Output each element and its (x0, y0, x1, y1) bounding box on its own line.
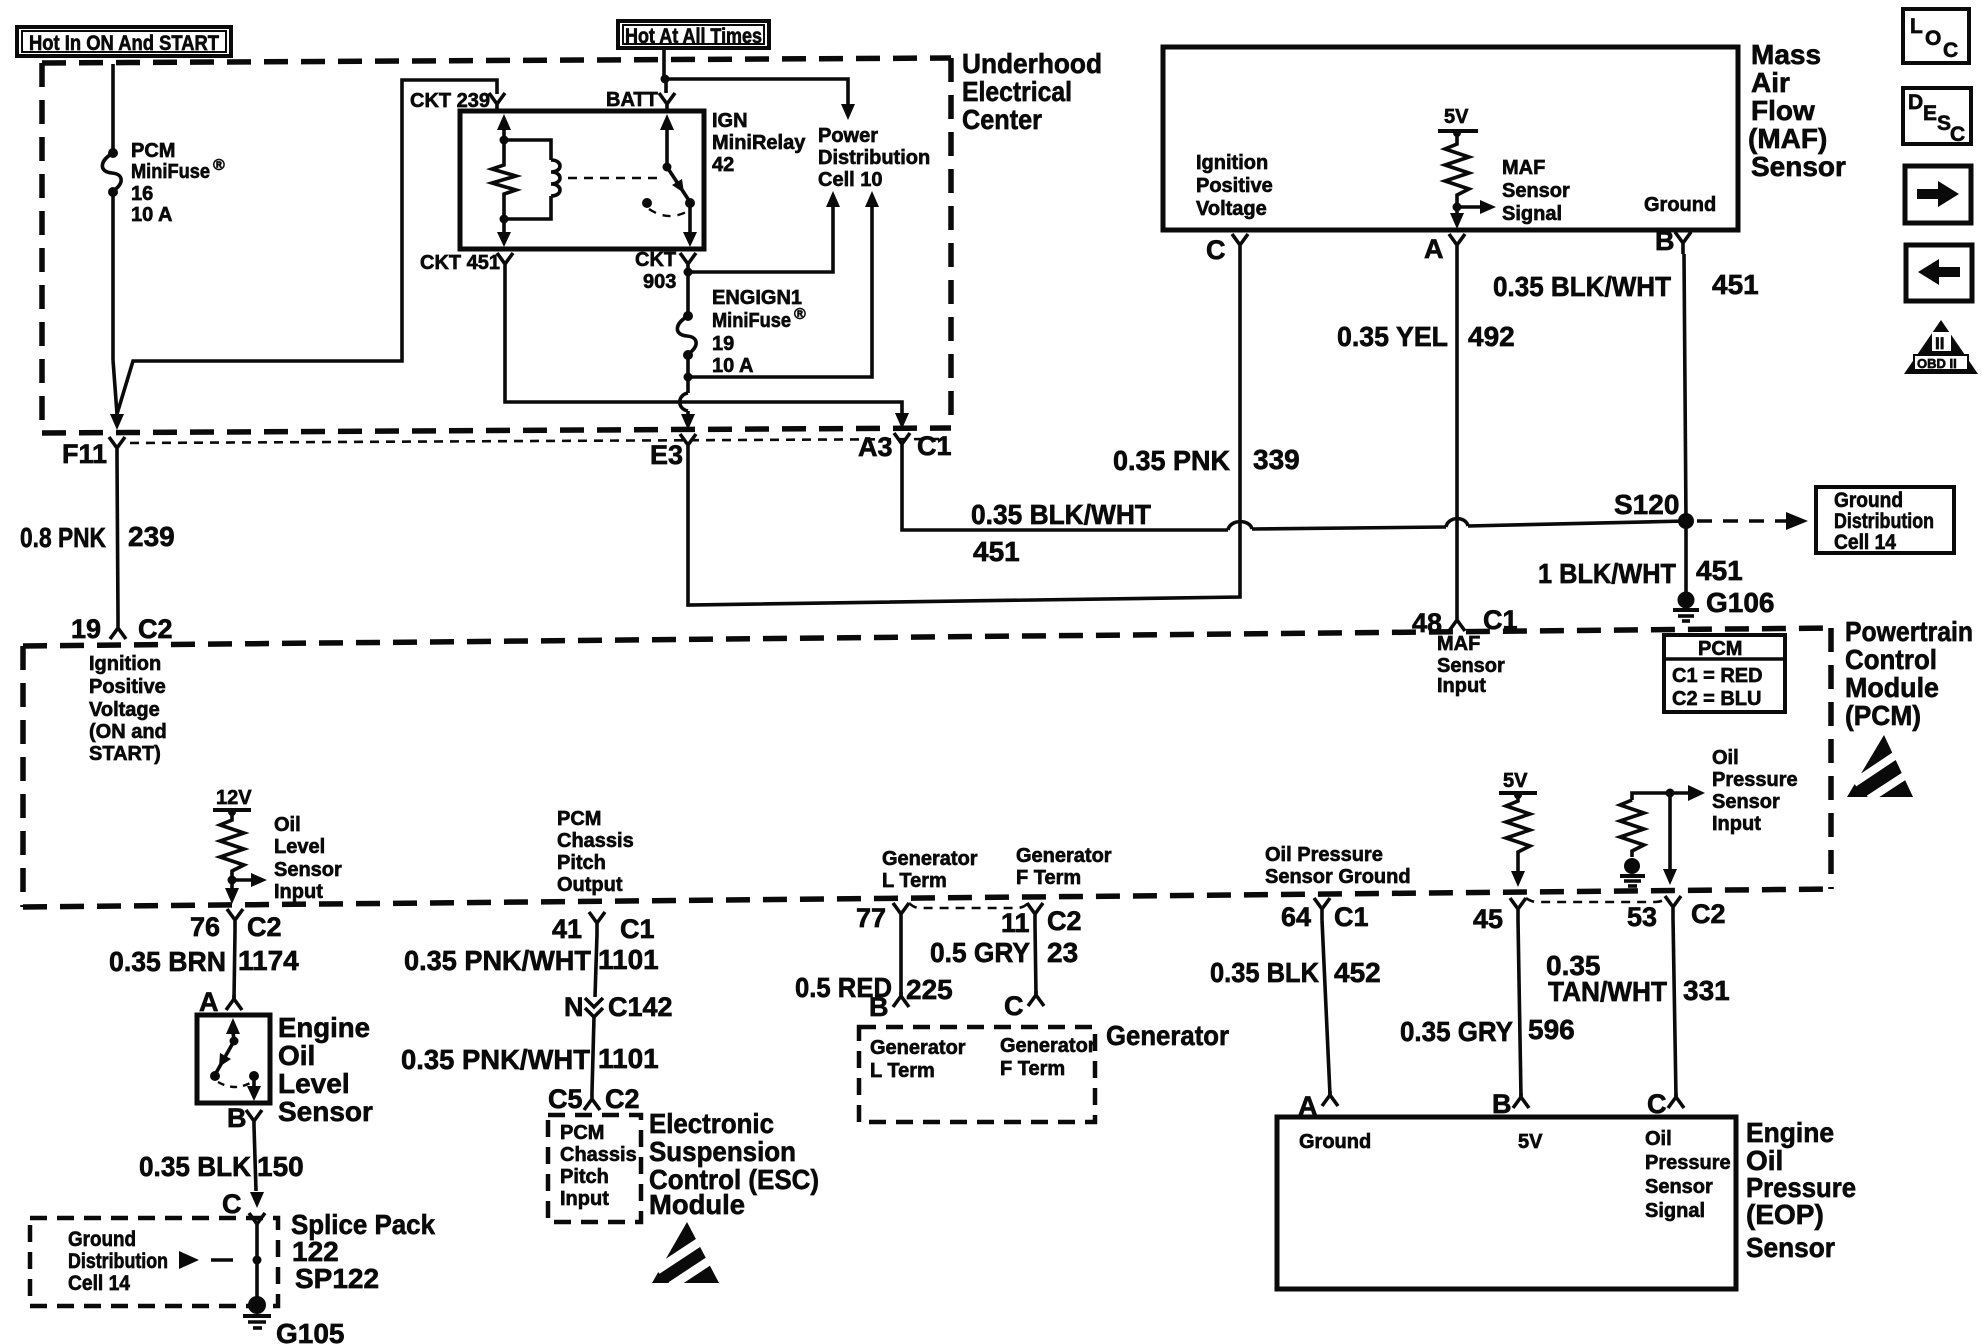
svg-text:C2: C2 (605, 1084, 640, 1114)
svg-text:F Term: F Term (1016, 867, 1081, 889)
node MAF signal junction (1453, 203, 1462, 212)
svg-text:F Term: F Term (1000, 1058, 1065, 1080)
wire CKT903 to Power Distribution arrow (688, 191, 840, 272)
svg-text:C142: C142 (608, 992, 673, 1022)
svg-text:®: ® (794, 306, 806, 323)
icon right-arrow box (1905, 166, 1971, 223)
pin C (MAF) (1232, 234, 1248, 256)
svg-text:Sensor: Sensor (1712, 791, 1780, 813)
svg-text:START): START) (89, 743, 161, 765)
svg-text:Hot At All Times: Hot At All Times (625, 25, 762, 48)
wire coil to CKT451 with arrowhead down (497, 219, 511, 247)
relay switch blade with arrowhead (667, 167, 690, 202)
UEC connector face thin dashed line (F11/E3/A3 row) (130, 439, 940, 443)
svg-text:0.35 YEL: 0.35 YEL (1337, 321, 1448, 352)
label CKT 903 (635, 249, 676, 293)
wire 0.35 PNK/WHT 1101: C142 to pin C5 (592, 1017, 594, 1092)
node fuse F19 output junction (684, 373, 693, 382)
svg-text:Sensor: Sensor (1746, 1232, 1835, 1263)
resistor (oil pressure sensor input shunt) (1620, 793, 1670, 857)
pin 53 C2 (1665, 896, 1681, 918)
svg-text:64: 64 (1281, 902, 1311, 932)
svg-text:Generator: Generator (1000, 1035, 1096, 1057)
wire fuse F19 to Power Distribution arrow (688, 191, 879, 377)
pin A (MAF) (1449, 234, 1465, 256)
svg-text:(EOP): (EOP) (1746, 1199, 1824, 1230)
svg-text:G105: G105 (276, 1318, 345, 1344)
label Powertrain Control Module (PCM) (1845, 616, 1973, 731)
svg-text:596: 596 (1528, 1014, 1575, 1045)
svg-text:C2 = BLU: C2 = BLU (1672, 688, 1761, 710)
svg-text:Mass: Mass (1751, 39, 1821, 70)
svg-text:Positive: Positive (89, 676, 166, 698)
fuse ENGIGN1 MiniFuse 19 10A (677, 272, 696, 360)
svg-text:Electrical: Electrical (962, 76, 1072, 107)
svg-text:(MAF): (MAF) (1748, 123, 1827, 154)
svg-text:TAN/WHT: TAN/WHT (1548, 976, 1667, 1007)
resistor (5V oil pressure pull-up) (1506, 795, 1530, 858)
ESD symbol (ESC) (652, 1222, 719, 1286)
pin A (oil level sensor) (226, 995, 242, 1010)
wire splice pack to G105 (255, 1232, 259, 1297)
switch travel dashed arc (649, 209, 688, 216)
pin C (generator F term) (1028, 991, 1044, 1006)
label PCM MiniFuse (R) 16 10 A (131, 140, 225, 226)
svg-text:Voltage: Voltage (1196, 198, 1267, 220)
svg-text:C5: C5 (548, 1084, 583, 1114)
svg-text:BATT: BATT (606, 89, 658, 111)
label Splice Pack 122 SP122 (291, 1209, 435, 1294)
svg-text:C: C (1206, 235, 1226, 265)
label ENGIGN1 MiniFuse (R) 19 10 A (712, 287, 806, 377)
svg-text:PCM: PCM (1698, 638, 1742, 660)
pin CKT 239 (relay coil feed) (489, 93, 505, 110)
label Engine Oil Level Sensor (278, 1012, 373, 1127)
pin CKT 903 (680, 253, 696, 271)
pin 48 C1 (PCM MAF input) (1449, 608, 1465, 631)
svg-text:Air: Air (1751, 67, 1790, 98)
svg-text:19: 19 (712, 333, 734, 355)
label 0.35 YEL 492 (1337, 321, 1515, 352)
svg-text:Ground: Ground (1299, 1131, 1371, 1153)
svg-text:E: E (1923, 102, 1937, 125)
svg-text:Generator: Generator (870, 1037, 966, 1059)
arrow from Ground Distribution label to splice (179, 1251, 233, 1269)
svg-text:12V: 12V (216, 787, 252, 809)
label Generator F Term (inside box) (1000, 1035, 1096, 1080)
svg-text:Generator: Generator (1016, 845, 1112, 867)
svg-text:23: 23 (1047, 937, 1078, 968)
svg-text:Sensor: Sensor (274, 859, 342, 881)
svg-text:Oil: Oil (278, 1040, 315, 1071)
pin A3 (894, 433, 910, 455)
Underhood Electrical Center dashed enclosure (42, 58, 951, 433)
svg-text:N: N (564, 992, 584, 1022)
svg-text:CKT 451: CKT 451 (420, 252, 500, 274)
svg-text:S120: S120 (1614, 489, 1679, 520)
svg-text:C2: C2 (138, 614, 173, 644)
svg-text:C: C (1004, 991, 1024, 1021)
svg-text:B: B (227, 1103, 247, 1133)
svg-text:Control: Control (1845, 644, 1937, 675)
pin B (EOP sensor) (1513, 1093, 1529, 1108)
box Ground Distribution Cell 14 (right) (1816, 487, 1954, 554)
svg-text:SP122: SP122 (295, 1263, 379, 1294)
svg-text:Output: Output (557, 874, 623, 896)
svg-text:Ground: Ground (68, 1228, 136, 1251)
svg-text:225: 225 (906, 974, 953, 1005)
wire oil level down to pin 76 with arrowhead (225, 880, 239, 904)
svg-text:Input: Input (560, 1188, 609, 1210)
svg-text:Positive: Positive (1196, 175, 1273, 197)
wire 0.8 PNK 239: F11 to PCM pin 19 (117, 458, 118, 618)
svg-text:Chassis: Chassis (560, 1144, 637, 1166)
ground G106 (1673, 592, 1699, 622)
svg-text:492: 492 (1468, 321, 1515, 352)
svg-text:Powertrain: Powertrain (1845, 616, 1973, 647)
svg-text:331: 331 (1683, 975, 1730, 1006)
wire 0.35 BLK/WHT 451 horizontal run A3 to S120 with hops (902, 455, 1686, 530)
svg-text:O: O (1925, 27, 1941, 50)
svg-text:MiniRelay: MiniRelay (712, 132, 806, 154)
icon OBD II triangle (1904, 320, 1978, 374)
svg-text:(ON and: (ON and (89, 721, 167, 743)
svg-text:Cell 10: Cell 10 (818, 169, 882, 191)
pin splice pack 122 (249, 1213, 265, 1232)
label Oil Level Sensor Input (274, 814, 342, 903)
svg-text:L Term: L Term (882, 870, 947, 892)
pin C5 C2 (ESC module) (584, 1092, 600, 1110)
svg-text:Sensor Ground: Sensor Ground (1265, 866, 1411, 888)
label 0.35 BLK 452 (1210, 957, 1381, 988)
label 0.35 BLK 150 (139, 1151, 304, 1182)
pin F11 (109, 437, 125, 458)
svg-text:45: 45 (1473, 904, 1503, 934)
wire 0.35 BRN 1174: pin 76 to oil level sensor A (234, 931, 235, 999)
svg-text:10 A: 10 A (131, 204, 173, 226)
svg-text:Sensor: Sensor (1437, 655, 1505, 677)
label Underhood Electrical Center (962, 48, 1102, 135)
svg-text:PCM: PCM (557, 808, 601, 830)
resistor (relay coil suppression) (492, 140, 516, 219)
pin 77 (893, 903, 909, 925)
label Mass Air Flow (MAF) Sensor (1748, 39, 1846, 182)
svg-text:Level: Level (274, 836, 325, 858)
svg-text:G106: G106 (1706, 587, 1775, 618)
svg-text:Distribution: Distribution (1834, 510, 1934, 533)
node oil pressure input junction (1666, 789, 1675, 798)
svg-text:Engine: Engine (278, 1012, 370, 1043)
svg-text:Ignition: Ignition (89, 653, 161, 675)
pin A (EOP sensor) (1322, 1091, 1338, 1106)
wire 0.35 BLK/WHT 451: MAF B down to S120 (1684, 254, 1686, 521)
label Oil Pressure Sensor Signal (inside EOP) (1645, 1128, 1731, 1222)
svg-text:Cell 14: Cell 14 (1834, 531, 1896, 554)
label Oil Pressure Sensor Input (1712, 747, 1798, 835)
label 0.35 BLK/WHT 451 (horizontal run) (971, 499, 1151, 567)
label 0.35 GRY 596 (1400, 1014, 1575, 1047)
relay coil feed arrow (up) inside box (497, 114, 511, 140)
svg-text:1 BLK/WHT: 1 BLK/WHT (1538, 558, 1676, 589)
banner box "Hot In ON And START" (17, 27, 231, 56)
pin 64 C1 (1314, 898, 1330, 920)
svg-text:C2: C2 (1691, 899, 1726, 929)
svg-text:Sensor: Sensor (1502, 180, 1570, 202)
wire 0.35 YEL 492: MAF A down to PCM pin 48 (1455, 256, 1459, 608)
node relay coil bottom junction (500, 215, 509, 224)
svg-text:L: L (1910, 15, 1923, 38)
svg-text:5V: 5V (1444, 106, 1469, 128)
5V supply symbol (oil pressure pull-up) (1499, 770, 1537, 799)
svg-text:Signal: Signal (1645, 1200, 1705, 1222)
resistor (MAF signal pull-up) (1445, 133, 1469, 205)
wire 0.35 TAN/WHT 331: pin 53 to EOP C (1673, 918, 1676, 1097)
wire junction down to pin 53 with arrowhead (1663, 793, 1677, 885)
svg-text:339: 339 (1253, 444, 1300, 475)
svg-text:Cell 14: Cell 14 (68, 1272, 130, 1295)
label Ground Distribution Cell 14 (68, 1228, 168, 1295)
svg-text:Sensor: Sensor (1645, 1176, 1713, 1198)
wire 0.5 GRY 23: pin 11 to generator C (1035, 925, 1036, 995)
icon DESC box (1903, 88, 1971, 146)
svg-text:Oil Pressure: Oil Pressure (1265, 844, 1383, 866)
ground G105 (243, 1296, 271, 1328)
svg-text:Generator: Generator (882, 848, 978, 870)
svg-text:OBD II: OBD II (1917, 356, 1957, 371)
svg-text:Distribution: Distribution (818, 147, 930, 169)
svg-text:76: 76 (190, 912, 220, 942)
node relay switch pivot (663, 163, 672, 172)
svg-text:Center: Center (962, 104, 1042, 135)
relay coil winding (504, 140, 560, 219)
svg-text:11: 11 (1001, 908, 1030, 938)
wire 1 BLK/WHT 451: S120 down to G106 (1684, 521, 1688, 597)
label IGN MiniRelay 42 (712, 110, 806, 176)
fuse F16 feed wire from Hot In ON And START bus (111, 64, 115, 152)
arrowhead into F11 (110, 414, 124, 430)
ground (oil pressure shunt) (1620, 858, 1645, 886)
pin B (MAF) (1675, 232, 1691, 254)
relay switch common arrow (up to BATT) (660, 114, 674, 167)
oil level sensor switch (210, 1018, 261, 1101)
node relay coil top junction (500, 136, 509, 145)
node S120 splice (1678, 513, 1694, 529)
svg-text:C1: C1 (620, 914, 655, 944)
pin E3 (680, 434, 696, 457)
dashed box Ground Distribution Cell 14 (left) (30, 1218, 278, 1306)
label PCM Chassis Pitch Output (557, 808, 634, 896)
svg-text:Engine: Engine (1746, 1117, 1834, 1148)
label 1 BLK/WHT 451 (1538, 555, 1743, 589)
dashed box PCM Chassis Pitch Input (ESC) (548, 1115, 641, 1222)
svg-text:Chassis: Chassis (557, 830, 634, 852)
svg-text:Voltage: Voltage (89, 699, 160, 721)
svg-text:C2: C2 (247, 912, 282, 942)
svg-text:®: ® (213, 157, 225, 174)
svg-text:5V: 5V (1518, 1131, 1543, 1153)
pin 45 (1510, 898, 1526, 920)
label Oil Pressure Sensor Ground (1265, 844, 1411, 888)
label 0.35 PNK/WHT 1101 (lower) (401, 1043, 659, 1075)
node relay switch closed contact (685, 198, 695, 208)
svg-text:0.35 BLK: 0.35 BLK (139, 1151, 251, 1182)
svg-text:C2: C2 (1047, 906, 1082, 936)
svg-text:MAF: MAF (1437, 633, 1480, 655)
icon LOC box (1903, 9, 1969, 63)
svg-text:0.35 GRY: 0.35 GRY (1400, 1016, 1513, 1047)
svg-text:0.35 BLK/WHT: 0.35 BLK/WHT (1493, 271, 1671, 302)
svg-text:Hot In ON And START: Hot In ON And START (29, 32, 219, 55)
wire resistor down to pin 45 with arrowhead (1511, 858, 1525, 887)
svg-text:F11: F11 (62, 439, 107, 469)
svg-text:0.35 BLK: 0.35 BLK (1210, 957, 1319, 988)
box Engine Oil Pressure (EOP) Sensor (1277, 1117, 1736, 1289)
svg-text:5V: 5V (1503, 770, 1528, 792)
svg-text:C1: C1 (917, 431, 952, 461)
arrow oil pressure sensor input (right) (1670, 785, 1705, 801)
wire 0.5 RED 225: pin 77 to generator B (899, 925, 903, 996)
pin 19 C2 (PCM ignition feed) (110, 618, 126, 639)
svg-text:B: B (869, 992, 889, 1022)
pin C (EOP sensor) (1668, 1093, 1684, 1108)
label 0.35 PNK/WHT 1101 (upper) (404, 944, 659, 976)
MAF sensor box (1163, 47, 1738, 230)
svg-text:0.35 PNK/WHT: 0.35 PNK/WHT (404, 945, 591, 976)
dashed box Generator (859, 1027, 1095, 1122)
label MAF Sensor Input (1437, 633, 1505, 697)
svg-text:C: C (222, 1189, 242, 1219)
label 0.35 BLK/WHT 451 (MAF ground) (1493, 269, 1759, 302)
12V supply symbol (oil level sensor pull-up) (213, 787, 252, 816)
svg-text:C1: C1 (1334, 902, 1369, 932)
svg-text:Oil: Oil (1645, 1128, 1672, 1150)
svg-text:Signal: Signal (1502, 203, 1562, 225)
label 0.35 PNK 339 (1113, 444, 1300, 476)
label MAF Sensor Signal (1502, 157, 1570, 225)
svg-text:Flow: Flow (1751, 95, 1815, 126)
label 0.35 BRN 1174 (109, 945, 299, 977)
svg-text:Pressure: Pressure (1645, 1152, 1731, 1174)
svg-text:Generator: Generator (1106, 1020, 1229, 1051)
label Ignition Positive Voltage (inside MAF) (1196, 152, 1273, 220)
dashed wire S120 to Ground Distribution Cell 14 (1697, 512, 1808, 530)
svg-text:Oil: Oil (1712, 747, 1739, 769)
svg-text:Level: Level (278, 1068, 350, 1099)
svg-text:Ignition: Ignition (1196, 152, 1268, 174)
label 0.5 GRY 23 (930, 937, 1078, 968)
svg-text:Input: Input (1712, 813, 1761, 835)
svg-text:10 A: 10 A (712, 355, 754, 377)
svg-text:16: 16 (131, 183, 153, 205)
svg-text:E3: E3 (650, 440, 683, 470)
label Generator L Term (inside box) (870, 1037, 966, 1082)
svg-text:MiniFuse: MiniFuse (712, 310, 791, 332)
wire 0.35 BLK 150: B down to splice pack (254, 1126, 256, 1191)
node splice junction (253, 1256, 262, 1265)
node CKT903 junction (684, 268, 693, 277)
label 0.5 RED 225 (795, 972, 953, 1005)
5V supply symbol (MAF) (1438, 106, 1478, 137)
svg-text:MAF: MAF (1502, 157, 1545, 179)
node relay switch open contact (642, 198, 652, 208)
svg-text:1101: 1101 (598, 944, 659, 975)
svg-text:239: 239 (128, 521, 175, 552)
label 0.35 TAN/WHT 331 (1546, 950, 1730, 1007)
svg-text:Distribution: Distribution (68, 1250, 168, 1273)
svg-text:903: 903 (643, 271, 676, 293)
svg-text:0.5 GRY: 0.5 GRY (930, 937, 1030, 968)
svg-text:Pressure: Pressure (1712, 769, 1798, 791)
wire fuse F19 down to E3 with crossover hop (680, 355, 695, 430)
wire 0.35 PNK 339: MAF C down to E3 run (688, 256, 1240, 605)
pin 11 C2 (1027, 903, 1043, 925)
wire Hot At All Times feed down to BATT (662, 48, 666, 79)
wire CKT 239 from relay to F11: up, left, down, left, diagonal (117, 80, 497, 414)
svg-text:19: 19 (71, 614, 101, 644)
label PCM Chassis Pitch Input (560, 1122, 637, 1210)
svg-text:451: 451 (973, 536, 1020, 567)
label Engine Oil Pressure (EOP) Sensor (1746, 1117, 1856, 1263)
label Electronic Suspension Control (ESC) Module (649, 1108, 819, 1220)
wire 0.35 BLK 452: pin 64 to EOP A (1322, 920, 1330, 1095)
thin dashed connector line 77 to 11 (909, 903, 1028, 908)
label 0.8 PNK 239 (20, 521, 175, 553)
resistor (oil level pull-up) (220, 812, 244, 878)
arrow MAF sensor signal (right) (1457, 200, 1496, 214)
label Generator L Term (PCM) (882, 848, 978, 892)
svg-text:0.8 PNK: 0.8 PNK (20, 522, 106, 553)
svg-text:Sensor: Sensor (278, 1096, 373, 1127)
svg-text:Oil: Oil (274, 814, 301, 836)
svg-text:(PCM): (PCM) (1845, 700, 1921, 731)
svg-text:Pitch: Pitch (560, 1166, 609, 1188)
svg-text:ENGIGN1: ENGIGN1 (712, 287, 802, 309)
svg-text:A3: A3 (858, 432, 893, 462)
arrowhead into A3 (895, 413, 909, 429)
svg-text:C1 = RED: C1 = RED (1672, 665, 1763, 687)
pin BATT (659, 93, 675, 110)
svg-text:Ground: Ground (1834, 489, 1903, 512)
svg-text:0.35 PNK/WHT: 0.35 PNK/WHT (401, 1044, 590, 1075)
wire switch output to CKT903 with arrowhead (683, 203, 697, 247)
relay actuation dashed link (568, 177, 660, 180)
wire 0.35 GRY 596: pin 45 to EOP B (1518, 920, 1521, 1097)
svg-text:D: D (1908, 91, 1923, 114)
svg-text:Underhood: Underhood (962, 48, 1102, 79)
wire MAF signal down to pin A with arrowhead (1450, 207, 1464, 229)
svg-text:53: 53 (1627, 902, 1657, 932)
label Ignition Positive Voltage (ON and START) (89, 653, 167, 765)
svg-text:1174: 1174 (238, 945, 299, 976)
svg-text:PCM: PCM (131, 140, 175, 162)
pin CKT 451 (497, 253, 513, 272)
svg-text:Ground: Ground (1644, 194, 1716, 216)
svg-text:41: 41 (552, 914, 582, 944)
svg-text:Module: Module (649, 1189, 745, 1220)
svg-text:II: II (1935, 334, 1944, 353)
svg-text:Electronic: Electronic (649, 1108, 774, 1139)
svg-text:1101: 1101 (598, 1043, 659, 1074)
svg-text:451: 451 (1696, 555, 1743, 586)
wire BATT bus to Power Distribution arrow (665, 79, 855, 120)
arrow oil level sensor input (right) (232, 873, 267, 887)
Powertrain Control Module dashed enclosure (23, 628, 1831, 907)
svg-text:B: B (1655, 226, 1675, 256)
svg-text:IGN: IGN (712, 110, 748, 132)
svg-text:C: C (1943, 39, 1958, 62)
svg-text:CKT: CKT (635, 249, 676, 271)
pin 41 C1 (589, 912, 605, 934)
